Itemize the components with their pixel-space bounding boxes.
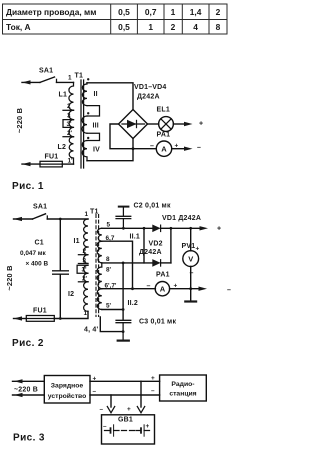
svg-text:GB1: GB1 bbox=[118, 417, 133, 424]
wire plus rail fig3 bbox=[90, 380, 160, 382]
battery dashes bbox=[122, 430, 135, 432]
battery cell left bbox=[105, 424, 120, 436]
svg-text:2: 2 bbox=[171, 22, 176, 32]
fuse FU1 fig2 bbox=[26, 316, 54, 322]
svg-text:8: 8 bbox=[106, 256, 110, 263]
svg-text:0,7: 0,7 bbox=[145, 7, 157, 17]
svg-text:~220 В: ~220 В bbox=[14, 387, 38, 394]
input arrow bottom (~220V line) bbox=[22, 162, 40, 166]
svg-text:IV: IV bbox=[93, 147, 100, 154]
svg-text:Рис. 2: Рис. 2 bbox=[12, 338, 44, 349]
output - terminal arrow fig2 bbox=[199, 287, 208, 291]
svg-text:+: + bbox=[127, 406, 131, 413]
svg-text:Диаметр провода, мм: Диаметр провода, мм bbox=[6, 7, 96, 17]
svg-text:V: V bbox=[188, 255, 193, 264]
svg-text:4, 4': 4, 4' bbox=[84, 327, 98, 334]
tap 8/8' wire to VD2 bbox=[102, 262, 153, 264]
node PV1 top bbox=[189, 227, 192, 230]
table row 2 text bbox=[6, 22, 221, 32]
winding 2-3 fig2 bbox=[83, 247, 88, 264]
svg-text:6,7: 6,7 bbox=[106, 235, 115, 242]
svg-text:2: 2 bbox=[216, 7, 221, 17]
svg-text:L1: L1 bbox=[59, 92, 68, 99]
diode VD1 bbox=[152, 225, 171, 233]
svg-text:6',7': 6',7' bbox=[105, 282, 117, 289]
wire bridge right to lamp bbox=[148, 123, 159, 125]
svg-text:Зарядное: Зарядное bbox=[51, 383, 84, 390]
battery cell right bbox=[136, 424, 150, 436]
svg-text:+: + bbox=[151, 375, 155, 382]
wire 8 to 5' and C3 bbox=[122, 263, 124, 320]
wire I2 bottom to fuse line bbox=[54, 311, 88, 318]
chassis ground at PV1 bbox=[184, 289, 197, 302]
table frame bbox=[3, 4, 228, 34]
polarity dot IV bbox=[87, 137, 89, 139]
svg-text:VD2: VD2 bbox=[149, 240, 163, 247]
diode VD2 bbox=[152, 259, 171, 267]
svg-text:C2 0,01 мк: C2 0,01 мк bbox=[134, 203, 171, 210]
secondary winding IV bbox=[82, 141, 87, 161]
wire L2 to fuse FU1 bbox=[62, 163, 73, 165]
wire lamp to + terminal bbox=[173, 123, 184, 125]
tap 3 tick fig2 bbox=[78, 263, 88, 265]
svg-text:Т1: Т1 bbox=[75, 73, 84, 80]
svg-text:+: + bbox=[196, 246, 200, 253]
svg-text:1: 1 bbox=[148, 22, 153, 32]
svg-text:–: – bbox=[147, 283, 151, 290]
wire bridge left loop bbox=[110, 124, 133, 149]
output - terminal arrow fig1 bbox=[184, 147, 193, 151]
svg-text:–: – bbox=[197, 145, 201, 152]
svg-text:SA1: SA1 bbox=[39, 68, 53, 75]
secondary winding III bbox=[82, 116, 87, 133]
svg-text:–: – bbox=[93, 388, 97, 395]
lamp EL1 bbox=[159, 117, 174, 132]
svg-text:A: A bbox=[160, 284, 166, 293]
polarity dot III bbox=[87, 112, 89, 114]
bridge rectifier VD1-VD4 bbox=[119, 110, 148, 139]
input arrow bottom fig2 bbox=[14, 316, 27, 320]
capacitor C3 bbox=[115, 320, 131, 340]
svg-text:PV1: PV1 bbox=[182, 243, 196, 250]
svg-text:–: – bbox=[103, 423, 107, 430]
output + terminal arrow fig2 bbox=[200, 226, 209, 230]
transformer T1 primary winding L1 bbox=[69, 82, 74, 110]
svg-text:станция: станция bbox=[169, 391, 196, 398]
svg-text:~220 В: ~220 В bbox=[15, 108, 24, 133]
wire PV1 top lead bbox=[190, 228, 192, 251]
node 6,7 join PA1 line bbox=[131, 287, 134, 290]
svg-text:A: A bbox=[161, 145, 167, 154]
svg-text:VD1 Д242А: VD1 Д242А bbox=[162, 215, 201, 222]
svg-text:–: – bbox=[100, 406, 104, 413]
switch SA1 fig2 bbox=[33, 214, 48, 219]
winding 3'-2' fig2 bbox=[84, 265, 89, 282]
ammeter PA1 fig1 bbox=[156, 141, 171, 156]
top rail secondary to bridge bbox=[87, 83, 133, 110]
svg-text:SA1: SA1 bbox=[33, 204, 47, 211]
svg-text:FU1: FU1 bbox=[45, 154, 59, 161]
transformer core fig2 bbox=[96, 214, 99, 317]
wire ammeter to - terminal bbox=[172, 148, 184, 150]
svg-text:Д242А: Д242А bbox=[137, 94, 160, 101]
jog III-IV bbox=[87, 133, 100, 140]
input arrow top (~220V line) bbox=[22, 80, 40, 84]
svg-text:0,047 мк: 0,047 мк bbox=[20, 250, 46, 257]
node PV1 bottom bbox=[189, 287, 192, 290]
wire node to ammeter bbox=[133, 148, 156, 150]
jumper 3-3' box fig2 bbox=[77, 265, 88, 273]
secondary spine fig2 with windings bbox=[97, 228, 102, 309]
svg-text:–: – bbox=[227, 287, 231, 294]
transformer T1 primary winding L2 bbox=[69, 137, 73, 164]
primary winding I.2 fig2 bbox=[84, 282, 88, 312]
svg-text:Рис. 3: Рис. 3 bbox=[13, 433, 45, 444]
svg-text:II.2: II.2 bbox=[128, 300, 139, 307]
wire PV1 bottom lead bbox=[190, 267, 192, 289]
wire plus rail fig2 bbox=[171, 227, 200, 229]
tap 2' tick bbox=[63, 136, 74, 138]
svg-text:III: III bbox=[93, 123, 99, 130]
svg-text:Ток, А: Ток, А bbox=[6, 22, 31, 32]
wire minus drop to clamp bbox=[110, 395, 112, 407]
tap 6',7' wire (PA1 line) bbox=[102, 288, 156, 290]
svg-text:5': 5' bbox=[106, 303, 112, 310]
input arrow bottom fig3 bbox=[13, 393, 45, 397]
switch SA1 bbox=[40, 77, 57, 82]
wire switch to T1 fig2 bbox=[47, 218, 88, 220]
output + terminal arrow fig1 bbox=[184, 122, 193, 126]
fuse FU1 bbox=[40, 161, 62, 167]
tap 5 wire bbox=[102, 227, 153, 229]
svg-text:0,5: 0,5 bbox=[118, 22, 130, 32]
svg-text:C3 0,01 мк: C3 0,01 мк bbox=[139, 319, 176, 326]
svg-text:0,5: 0,5 bbox=[118, 7, 130, 17]
svg-text:× 400 В: × 400 В bbox=[26, 260, 49, 267]
transformer T1 core bbox=[81, 80, 84, 168]
capacitor C2 bbox=[115, 207, 131, 229]
capacitor C1 bbox=[52, 219, 69, 319]
wire PA1 to - terminal bbox=[170, 288, 199, 290]
battery GB1 box bbox=[102, 415, 155, 444]
node C3 bottom / 4,4' join bbox=[122, 330, 125, 333]
svg-text:C1: C1 bbox=[35, 240, 44, 247]
tap 2' tick fig2 bbox=[78, 281, 88, 283]
svg-text:1: 1 bbox=[171, 7, 176, 17]
voltmeter PV1 bbox=[183, 251, 199, 267]
node C1 top bbox=[59, 218, 62, 221]
svg-text:5: 5 bbox=[107, 222, 111, 229]
table row 1 text bbox=[6, 7, 221, 17]
svg-text:Т1: Т1 bbox=[90, 209, 99, 216]
primary winding I.1 fig2 bbox=[84, 219, 88, 247]
ammeter PA1 fig2 bbox=[155, 282, 169, 296]
tap 2 tick fig2 bbox=[78, 254, 88, 256]
svg-text:Рис. 1: Рис. 1 bbox=[12, 181, 44, 192]
svg-text:+: + bbox=[146, 423, 150, 430]
clamp minus (arrow onto battery) bbox=[107, 407, 114, 413]
svg-text:I1: I1 bbox=[74, 238, 80, 245]
svg-text:Радио-: Радио- bbox=[171, 381, 194, 388]
svg-text:8': 8' bbox=[106, 267, 112, 274]
chassis ground at C3 bbox=[117, 340, 130, 342]
wire minus rail fig3 bbox=[90, 394, 160, 396]
node C1 bottom bbox=[59, 317, 62, 320]
svg-text:1: 1 bbox=[85, 211, 89, 218]
node VD1 cathode bbox=[170, 227, 173, 230]
svg-text:8: 8 bbox=[216, 22, 221, 32]
wire VD2 cathode up bbox=[170, 228, 172, 263]
node VD split bbox=[143, 227, 146, 230]
block charger bbox=[44, 376, 90, 404]
svg-text:3: 3 bbox=[67, 112, 71, 119]
svg-text:Д242А: Д242А bbox=[139, 249, 162, 256]
tap 6,7 wire bbox=[102, 241, 133, 289]
svg-text:+: + bbox=[217, 225, 221, 232]
wire VD1 to VD2 anode link bbox=[143, 228, 145, 263]
node C2 on tap5 wire bbox=[122, 227, 125, 230]
svg-text:VD1–VD4: VD1–VD4 bbox=[134, 84, 167, 91]
winding section 3'-2' bbox=[69, 120, 74, 137]
svg-text:II: II bbox=[94, 91, 98, 98]
svg-text:устройство: устройство bbox=[48, 392, 87, 400]
svg-text:II.1: II.1 bbox=[130, 233, 141, 240]
svg-text:EL1: EL1 bbox=[157, 107, 170, 114]
screen 4,4' wire to ground bbox=[100, 317, 123, 332]
secondary winding II bbox=[82, 83, 87, 106]
input arrow top fig2 bbox=[14, 217, 33, 221]
winding section 2-3 bbox=[69, 110, 74, 119]
wire switch to T1 terminal 1 bbox=[57, 81, 74, 83]
node 8-5' vertical top bbox=[122, 262, 125, 265]
wire plus drop to clamp bbox=[140, 381, 142, 407]
svg-text:~220 В: ~220 В bbox=[5, 265, 14, 290]
wire bottom rail to node bbox=[87, 149, 133, 161]
clamp plus (arrow onto battery) bbox=[137, 407, 144, 413]
wire bridge bottom to node bbox=[132, 139, 134, 149]
svg-text:–: – bbox=[151, 388, 155, 395]
svg-text:1,4: 1,4 bbox=[190, 7, 202, 17]
svg-text:FU1: FU1 bbox=[33, 308, 47, 315]
jog II-III bbox=[87, 106, 100, 116]
node 5' join bbox=[122, 308, 125, 311]
svg-text:I2: I2 bbox=[68, 291, 74, 298]
svg-text:+: + bbox=[199, 121, 203, 128]
tap 5' wire bbox=[102, 309, 123, 311]
svg-text:1: 1 bbox=[68, 75, 72, 82]
svg-text:PA1: PA1 bbox=[156, 272, 170, 279]
svg-text:L2: L2 bbox=[58, 144, 67, 151]
node bridge minus junction bbox=[132, 147, 135, 150]
polarity dot II bbox=[87, 78, 89, 80]
svg-text:PA1: PA1 bbox=[157, 132, 171, 139]
jumper 3-3' box bbox=[63, 120, 74, 128]
svg-text:–: – bbox=[150, 143, 154, 150]
svg-text:4: 4 bbox=[193, 22, 198, 32]
tap 2 tick bbox=[63, 109, 74, 111]
svg-text:2: 2 bbox=[67, 103, 71, 110]
block radio bbox=[160, 375, 207, 401]
input arrow top fig3 bbox=[13, 379, 45, 383]
wire 8' link bbox=[101, 263, 103, 267]
svg-text:2': 2' bbox=[67, 130, 73, 137]
